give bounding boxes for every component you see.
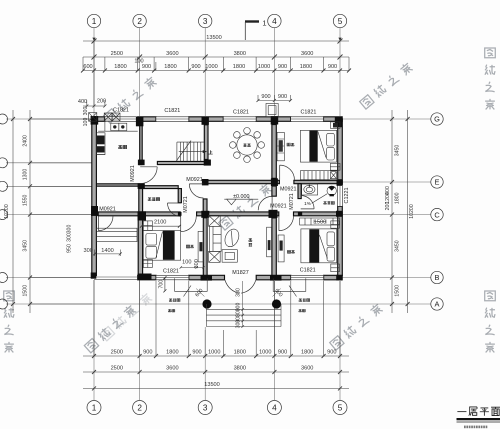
- left overall dim line 10200: [12, 110, 14, 313]
- right overall dim line 10200: [407, 110, 409, 313]
- svg-text:1800: 1800: [300, 64, 312, 70]
- bedroom TR bed: [300, 130, 336, 162]
- svg-text:M1827: M1827: [232, 270, 248, 276]
- corridor level mark: [224, 199, 258, 205]
- svg-text:C1821: C1821: [163, 268, 179, 274]
- column B-4: [270, 275, 282, 280]
- watermark bottom-right diagonal 图纸之家: [329, 302, 383, 350]
- svg-text:2400: 2400: [23, 135, 29, 147]
- svg-text:2500: 2500: [111, 366, 123, 372]
- window C1821 bottom bay 2-3: [156, 275, 189, 280]
- svg-text:A: A: [435, 300, 440, 309]
- svg-text:C1821: C1821: [300, 268, 316, 274]
- svg-text:1300: 1300: [23, 169, 29, 181]
- kitchen left counter with stove: [97, 133, 105, 155]
- column E-2: [138, 183, 145, 189]
- bubble axis B right: [431, 271, 443, 283]
- bedroom3 tv cabinet west: [278, 235, 284, 262]
- svg-text:1800: 1800: [301, 350, 313, 356]
- porch step dim line with 300 labels: [241, 281, 244, 328]
- column F-3: [204, 160, 211, 166]
- svg-text:1000: 1000: [258, 64, 270, 70]
- svg-text:2: 2: [137, 17, 142, 26]
- watermark center diagonal 图纸之家: [218, 182, 272, 230]
- window C1221 right wall bathroom: [338, 185, 343, 207]
- svg-text:3600: 3600: [166, 366, 178, 372]
- bubble axis 3 top: [199, 14, 212, 27]
- window C1821 top bay 1-2 (kitchen): [105, 117, 138, 122]
- svg-text:5: 5: [338, 404, 343, 413]
- svg-text:1400: 1400: [101, 248, 113, 254]
- watermark bottom-left diagonal 图纸之家: [84, 304, 137, 353]
- wall axis3 stair east: [204, 125, 208, 160]
- left partial axis circles: [0, 114, 8, 124]
- column C-utility: [178, 212, 182, 216]
- svg-text:1800: 1800: [234, 350, 246, 356]
- svg-text:1: 1: [92, 17, 97, 26]
- kitchen counter top edge: [98, 121, 138, 131]
- svg-text:3: 3: [203, 404, 208, 413]
- svg-text:200: 200: [97, 99, 106, 105]
- column B-2: [138, 274, 152, 280]
- column F-2: [138, 160, 145, 166]
- living sofa corner chairs with X: [209, 215, 221, 262]
- svg-text:M0921: M0921: [99, 206, 115, 212]
- column E-3: [202, 179, 209, 185]
- column C-bath: [298, 212, 302, 216]
- column G-5: [335, 117, 343, 127]
- bedroom2 dim 2100: [140, 225, 181, 228]
- window C1821 bottom bay 4-5: [291, 275, 324, 280]
- svg-text:900: 900: [191, 64, 200, 70]
- svg-text:100: 100: [134, 59, 143, 65]
- porch column left: [202, 299, 211, 308]
- column C-1: [91, 206, 98, 216]
- svg-text:13500: 13500: [204, 382, 220, 388]
- svg-text:13500: 13500: [206, 35, 222, 41]
- AC platform right: [273, 278, 306, 296]
- svg-text:300: 300: [83, 107, 89, 116]
- AC platform left dim 700: [163, 276, 166, 292]
- bubble axis 5 top: [333, 14, 346, 27]
- svg-text:3450: 3450: [395, 240, 401, 252]
- bottom detail dim line: [83, 355, 349, 357]
- svg-text:1800: 1800: [233, 64, 245, 70]
- living sofa middle: [209, 226, 221, 251]
- wall G top exterior: [92, 117, 342, 122]
- bubble axis 1 top: [87, 14, 100, 27]
- door M0721 bathroom: [301, 196, 314, 209]
- svg-text:3600: 3600: [166, 51, 178, 57]
- svg-text:900: 900: [192, 350, 201, 356]
- bedroom TR wardrobe south (hanger band): [300, 171, 337, 180]
- column C-3: [201, 211, 209, 218]
- svg-text:3800: 3800: [234, 51, 246, 57]
- column C-2: [138, 211, 147, 220]
- door M0921 corridor (wall 3): [189, 184, 203, 198]
- watermark top-right diagonal 图纸之家: [359, 61, 413, 109]
- svg-text:10200: 10200: [409, 204, 415, 219]
- column G-3: [202, 117, 209, 125]
- svg-text:M0721: M0721: [183, 196, 189, 212]
- window C1821 top bay 3-4 (dining): [223, 117, 256, 122]
- room label kitchen: [118, 145, 126, 148]
- column C-5: [336, 211, 342, 217]
- svg-text:300: 300: [235, 288, 241, 297]
- column C-4: [269, 210, 278, 218]
- bubble axis G right: [431, 113, 443, 125]
- bedroom3 nightstands: [331, 221, 340, 272]
- wall axis5 right exterior: [338, 119, 343, 276]
- wall axis2 utility west: [139, 189, 143, 212]
- room label bathroom: [324, 201, 335, 204]
- wall axis4 dining/bedroom divider: [272, 125, 276, 179]
- SW room dim 1400/300: [93, 250, 122, 257]
- bubble axis E right: [431, 176, 443, 188]
- axis G horizontal extension line: [6, 118, 431, 120]
- svg-text:1550: 1550: [23, 195, 29, 207]
- svg-text:950: 950: [67, 244, 73, 253]
- wall utility east: [178, 189, 181, 203]
- wall bathroom west: [298, 184, 301, 199]
- dining table round with 8 chairs: [230, 128, 265, 163]
- svg-text:B: B: [435, 273, 440, 282]
- svg-text:E: E: [435, 178, 440, 187]
- axis F horizontal extension line (left only): [6, 162, 92, 164]
- title text 一层平面图: [457, 407, 500, 416]
- svg-text:1800: 1800: [166, 350, 178, 356]
- axis B horizontal extension line: [6, 277, 431, 279]
- bubble axis 2 top: [133, 14, 146, 27]
- svg-text:900: 900: [328, 64, 337, 70]
- title tiny note: [464, 426, 487, 429]
- watermark right-top vertical 图纸之家: [485, 48, 496, 109]
- bathroom toilet: [327, 186, 336, 196]
- wall F stair-hall south: [140, 161, 205, 164]
- axis 1 vertical extension line: [93, 28, 95, 400]
- room label dining: [243, 144, 250, 147]
- svg-text:2500: 2500: [111, 51, 123, 57]
- bedroom2 tv cabinet: [198, 231, 203, 262]
- svg-text:M0921: M0921: [130, 165, 136, 181]
- top intermediate dim line 2500/3600/3800/3600: [83, 56, 349, 58]
- watermark right-bottom vertical 图纸之家: [485, 291, 496, 352]
- svg-text:900: 900: [278, 350, 287, 356]
- svg-text:4: 4: [272, 404, 277, 413]
- axis 3 vertical extension line: [204, 28, 206, 400]
- svg-text:300: 300: [84, 248, 93, 254]
- svg-text:300: 300: [67, 233, 73, 242]
- column B-3: [201, 275, 213, 280]
- wall axis4 corridor east: [272, 186, 276, 196]
- wall axis4 living/bedroom divider: [272, 218, 276, 275]
- wall axis3 corridor west: [203, 199, 207, 212]
- wall axis2 kitchen/stair partition: [140, 121, 143, 161]
- svg-text:C1221: C1221: [344, 188, 350, 204]
- svg-text:600: 600: [83, 64, 92, 70]
- top overall dim line 13500: [83, 40, 349, 42]
- SW room wardrobe band: [97, 228, 137, 241]
- door M0921 stair hall (wall F): [140, 167, 157, 184]
- left detail dim line 2400/1300/1550/3450/1500: [29, 110, 31, 313]
- top detail dim line 600/1800/900/100/1800/900/1000/1800/1000/900/1800/900: [83, 70, 349, 72]
- kitchen vent boxes with X above window: [104, 113, 120, 121]
- wall B bottom exterior: [138, 275, 343, 280]
- svg-text:1500: 1500: [314, 219, 326, 225]
- bubble axis 4 bottom: [267, 401, 281, 415]
- svg-text:2500: 2500: [111, 350, 123, 356]
- svg-text:4: 4: [272, 17, 277, 26]
- svg-text:3: 3: [203, 17, 208, 26]
- wall E right (3 to 5): [203, 180, 342, 183]
- top small dim 900/900 at axis4 flue: [258, 95, 291, 101]
- column G-4: [271, 116, 279, 125]
- bathroom slope leader: [312, 194, 328, 204]
- door M0921 hall to SW room (wall C): [98, 216, 113, 231]
- svg-text:900: 900: [143, 350, 152, 356]
- svg-text:M0921: M0921: [270, 203, 286, 209]
- bedroom TR nightstands: [330, 122, 340, 170]
- section mark 1 at top: [245, 20, 259, 22]
- living tv cabinet east: [267, 227, 272, 257]
- bathroom vanity with basin: [302, 184, 318, 195]
- svg-text:700: 700: [159, 280, 165, 289]
- column G-2: [136, 117, 144, 127]
- svg-text:2100: 2100: [154, 219, 166, 225]
- svg-text:400: 400: [78, 99, 87, 105]
- svg-text:1000: 1000: [205, 64, 217, 70]
- window C1821 top bay 4-5 (bedroom): [291, 117, 324, 122]
- svg-text:G: G: [434, 115, 440, 124]
- column E-4: [271, 178, 278, 186]
- door M0721 utility room: [168, 203, 181, 216]
- door M0921 bedroom2 (wall C): [181, 216, 197, 232]
- axis 2 vertical extension line: [139, 28, 141, 400]
- title underline thin: [457, 421, 500, 424]
- bubble axis 3 bottom: [198, 401, 212, 415]
- wall E left thin (kitchen south): [96, 184, 141, 186]
- bubble axis A right: [431, 298, 443, 310]
- window C1821 top bay 2-3 (stair): [156, 117, 189, 122]
- AC platform left: [175, 278, 208, 296]
- room label bedroom2: [186, 245, 193, 248]
- svg-text:1800: 1800: [164, 64, 176, 70]
- svg-text:M0921: M0921: [186, 177, 202, 183]
- bedroom2 nightstands: [143, 221, 152, 268]
- porch column dims 600: [196, 289, 281, 297]
- svg-text:900: 900: [261, 94, 270, 100]
- svg-text:900: 900: [278, 94, 287, 100]
- bubble axis 1 bottom: [87, 401, 101, 415]
- svg-text:100: 100: [182, 260, 191, 266]
- column E-5: [337, 179, 343, 186]
- room label bedroom3: [287, 250, 294, 253]
- svg-text:200: 200: [385, 202, 391, 211]
- svg-text:M0921: M0921: [280, 186, 296, 192]
- svg-text:1: 1: [92, 404, 97, 413]
- watermark bottom-left-2 diagonal faint: [100, 292, 153, 341]
- bubble axis 4 top: [268, 14, 281, 27]
- axis 4 vertical extension line: [273, 28, 275, 400]
- svg-text:5: 5: [338, 17, 343, 26]
- axis A horizontal extension line (ground line across porch): [6, 303, 431, 305]
- axis E-left horizontal extension line: [6, 185, 92, 187]
- bottom overall dim line 13500: [83, 387, 349, 389]
- svg-text:300: 300: [235, 320, 241, 329]
- bedroom3 closet band along wall C: [300, 218, 340, 225]
- AC platform right labels: [299, 299, 310, 302]
- bedroom3 bed: [301, 229, 337, 263]
- porch steps: [206, 304, 281, 327]
- porch column right: [272, 299, 281, 308]
- flue box at axis4 above wall: [266, 104, 278, 117]
- kitchen flue box with X: [89, 113, 97, 122]
- bubble axis 5 bottom: [333, 401, 347, 415]
- svg-text:C: C: [434, 210, 440, 219]
- living tv stand south: [222, 250, 237, 263]
- door M0921 corridor east (wall 4): [258, 196, 272, 210]
- svg-text:1: 1: [262, 19, 266, 28]
- bubble axis 2 bottom: [133, 401, 147, 415]
- room label utility: [148, 197, 160, 201]
- stairs up label: [209, 150, 213, 154]
- svg-text:1%: 1%: [304, 201, 311, 206]
- svg-text:900: 900: [278, 64, 287, 70]
- railing thin lines bay1-2 bottom: [94, 277, 138, 280]
- bedroom TR wardrobe: [277, 132, 284, 160]
- svg-text:300: 300: [67, 225, 73, 234]
- bottom intermediate dim line: [83, 371, 349, 373]
- axis C horizontal extension line: [6, 214, 431, 216]
- svg-text:±0.000: ±0.000: [233, 194, 249, 200]
- room label living vertical: [249, 238, 252, 241]
- wall axis2 bedroom2 west: [138, 216, 142, 276]
- svg-text:C1821: C1821: [113, 108, 129, 114]
- svg-text:3600: 3600: [301, 51, 313, 57]
- svg-text:C1821: C1821: [233, 109, 249, 115]
- left wall small dims 300/300 rotated: [83, 107, 89, 127]
- axis E-right horizontal extension line: [342, 181, 431, 183]
- stairs flight: [176, 141, 204, 162]
- top-left small dims 400/200 at kitchen flue: [83, 41, 105, 106]
- svg-text:1800: 1800: [395, 192, 401, 204]
- svg-text:2: 2: [137, 404, 142, 413]
- column G-1: [91, 116, 99, 125]
- right detail dim line 3450/1800/3450/1500: [391, 110, 393, 313]
- kitchen sink double basin: [111, 123, 119, 130]
- svg-text:1000: 1000: [208, 350, 220, 356]
- column B-5: [336, 275, 342, 281]
- svg-text:900: 900: [142, 64, 151, 70]
- column B-1: [91, 273, 97, 279]
- svg-text:900: 900: [327, 350, 336, 356]
- svg-text:1500: 1500: [23, 285, 29, 297]
- title underline thick: [457, 418, 500, 420]
- svg-text:3450: 3450: [23, 240, 29, 252]
- svg-text:3800: 3800: [234, 366, 246, 372]
- door M0921 bedroom TR (wall E): [280, 165, 295, 180]
- svg-text:3600: 3600: [301, 366, 313, 372]
- svg-text:C1821: C1821: [300, 110, 316, 116]
- wall axis1 left exterior: [92, 119, 97, 276]
- wall axis3 living west: [203, 218, 207, 276]
- svg-text:M0721: M0721: [289, 193, 295, 209]
- watermark top-left diagonal 图纸之家: [103, 75, 157, 123]
- door M0921 bedroom3 (wall C): [279, 216, 294, 231]
- living coffee table oval: [222, 227, 241, 249]
- svg-text:1800: 1800: [114, 64, 126, 70]
- svg-text:3450: 3450: [395, 145, 401, 157]
- door M1827 main entrance double leaves: [225, 280, 256, 293]
- axis 5 vertical extension line: [339, 28, 341, 400]
- svg-text:C1821: C1821: [164, 108, 180, 114]
- wall utility north: [143, 186, 179, 189]
- watermark left-bottom vertical 图纸之家: [4, 291, 15, 352]
- bubble axis C right: [431, 208, 443, 220]
- bedroom2 bed: [143, 230, 180, 260]
- room label bedroom TR: [287, 143, 294, 146]
- stairs up arrow: [179, 150, 207, 153]
- svg-text:1000: 1000: [259, 350, 271, 356]
- wall C interior full-width: [98, 212, 342, 216]
- svg-text:1500: 1500: [395, 285, 401, 297]
